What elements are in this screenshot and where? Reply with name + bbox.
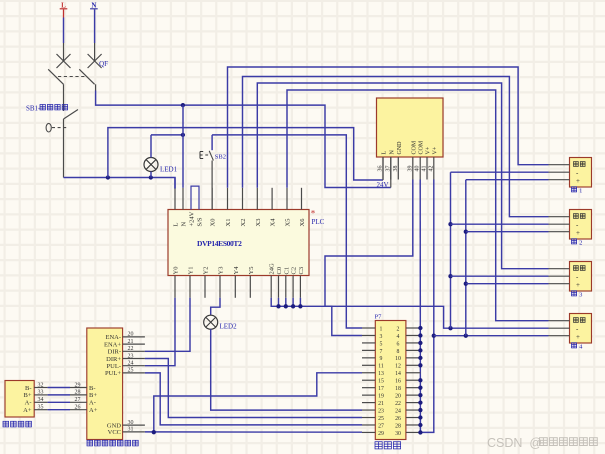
svg-text:10: 10: [395, 356, 401, 362]
svg-text:+24V: +24V: [189, 211, 196, 226]
svg-text:28: 28: [395, 423, 401, 429]
svg-text:DIR-: DIR-: [108, 349, 121, 356]
svg-text:32: 32: [38, 382, 44, 388]
svg-text:30: 30: [395, 431, 401, 437]
svg-text:QF: QF: [99, 60, 108, 68]
svg-text:17: 17: [378, 386, 384, 392]
svg-text:A+: A+: [89, 407, 98, 414]
svg-text:22: 22: [395, 401, 401, 407]
svg-text:L: L: [173, 223, 180, 227]
svg-text:24V: 24V: [377, 181, 389, 189]
svg-text:LED2: LED2: [220, 323, 238, 331]
svg-text:8: 8: [397, 349, 400, 355]
svg-text:28: 28: [75, 390, 81, 396]
svg-text:P7: P7: [375, 314, 383, 321]
svg-text:20: 20: [395, 394, 401, 400]
svg-text:SB1-: SB1-: [26, 105, 41, 113]
svg-text:29: 29: [378, 431, 384, 437]
svg-text:S/S: S/S: [197, 217, 204, 226]
svg-text:Y2: Y2: [203, 267, 210, 275]
svg-text:19: 19: [378, 394, 384, 400]
svg-text:*: *: [311, 209, 316, 219]
svg-text:A+: A+: [23, 407, 32, 414]
svg-text:9: 9: [380, 356, 383, 362]
svg-text:23: 23: [378, 408, 384, 414]
svg-text:PUL-: PUL-: [107, 363, 121, 370]
svg-text:18: 18: [395, 386, 401, 392]
svg-text:V+: V+: [432, 146, 438, 154]
svg-text:ENA-: ENA-: [105, 334, 121, 341]
svg-text:1: 1: [380, 326, 383, 332]
svg-text:PUL+: PUL+: [105, 370, 121, 377]
svg-text:Y4: Y4: [233, 266, 240, 275]
svg-text:X3: X3: [255, 219, 262, 227]
svg-text:B-: B-: [25, 385, 32, 392]
svg-text:Y0: Y0: [173, 267, 180, 275]
svg-text:29: 29: [75, 382, 81, 388]
svg-text:16: 16: [395, 379, 401, 385]
svg-text:3: 3: [380, 334, 383, 340]
svg-text:PLC: PLC: [312, 218, 325, 226]
svg-text:27: 27: [75, 397, 81, 403]
svg-text:26: 26: [395, 416, 401, 422]
svg-text:1: 1: [579, 188, 582, 195]
svg-text:+: +: [576, 281, 580, 289]
svg-text:+: +: [576, 177, 580, 185]
svg-text:+: +: [576, 229, 580, 237]
svg-text:25: 25: [378, 416, 384, 422]
svg-text:V+: V+: [426, 146, 432, 154]
svg-text:B-: B-: [89, 385, 96, 392]
svg-text:X2: X2: [240, 219, 247, 227]
svg-text:C1: C1: [283, 267, 290, 275]
svg-text:11: 11: [378, 364, 384, 370]
svg-text:13: 13: [378, 371, 384, 377]
svg-text:24G: 24G: [269, 263, 276, 275]
svg-text:X6: X6: [299, 218, 306, 227]
svg-text:X1: X1: [225, 219, 232, 227]
svg-text:N: N: [389, 150, 395, 155]
svg-text:33: 33: [38, 390, 44, 396]
svg-text:CSDN @: CSDN @: [487, 436, 542, 450]
svg-text:SB2: SB2: [215, 154, 226, 161]
svg-text:27: 27: [378, 423, 384, 429]
svg-text:12: 12: [395, 364, 401, 370]
svg-text:GND: GND: [397, 141, 403, 155]
svg-text:C2: C2: [291, 267, 298, 275]
svg-text:26: 26: [75, 405, 81, 411]
svg-text:L: L: [382, 151, 388, 155]
svg-text:B+: B+: [89, 392, 97, 399]
svg-text:COM: COM: [411, 140, 417, 154]
svg-text:LED1: LED1: [160, 166, 178, 174]
svg-text:VCC: VCC: [108, 429, 121, 436]
svg-text:X0: X0: [210, 219, 217, 227]
svg-text:5: 5: [380, 341, 383, 347]
svg-text:35: 35: [38, 405, 44, 411]
svg-text:34: 34: [38, 397, 44, 403]
svg-text:DIR+: DIR+: [106, 356, 121, 363]
svg-text:21: 21: [378, 401, 384, 407]
svg-text:Y5: Y5: [248, 267, 255, 275]
svg-text:15: 15: [378, 379, 384, 385]
svg-text:2: 2: [397, 326, 400, 332]
svg-text:COM: COM: [419, 140, 425, 154]
svg-text:N: N: [181, 222, 188, 227]
svg-text:+: +: [576, 333, 580, 341]
svg-text:X4: X4: [270, 218, 277, 227]
svg-text:C3: C3: [298, 267, 305, 275]
svg-text:DVP14ES00T2: DVP14ES00T2: [197, 239, 242, 248]
svg-text:ENA+: ENA+: [104, 341, 121, 348]
svg-text:C0: C0: [276, 267, 283, 275]
svg-text:3: 3: [579, 292, 582, 299]
svg-text:B+: B+: [23, 392, 31, 399]
svg-text:Y1: Y1: [188, 267, 195, 275]
svg-text:2: 2: [579, 240, 582, 247]
svg-text:Y3: Y3: [218, 267, 225, 275]
svg-text:X5: X5: [285, 219, 292, 227]
svg-text:7: 7: [380, 349, 383, 355]
svg-text:14: 14: [395, 371, 401, 377]
svg-text:24: 24: [395, 408, 401, 414]
svg-text:6: 6: [397, 341, 400, 347]
svg-text:A-: A-: [25, 400, 32, 407]
svg-text:4: 4: [397, 334, 400, 340]
svg-text:A-: A-: [89, 400, 96, 407]
